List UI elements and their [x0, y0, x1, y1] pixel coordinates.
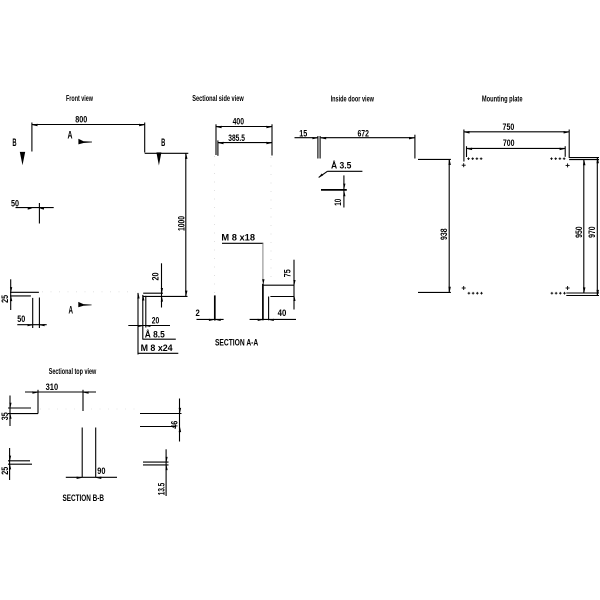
- svg-text:Å 3.5: Å 3.5: [331, 161, 351, 171]
- svg-text:310: 310: [46, 382, 59, 392]
- svg-text:1000: 1000: [177, 216, 187, 231]
- svg-text:50: 50: [11, 198, 19, 208]
- svg-text:Sectional top view: Sectional top view: [49, 367, 97, 376]
- svg-text:20: 20: [152, 315, 160, 325]
- svg-text:970: 970: [587, 226, 597, 238]
- svg-text:40: 40: [278, 308, 287, 318]
- svg-text:938: 938: [439, 228, 449, 240]
- svg-text:35: 35: [0, 412, 10, 420]
- svg-text:25: 25: [0, 295, 10, 303]
- svg-text:SECTION A-A: SECTION A-A: [215, 338, 259, 348]
- svg-text:950: 950: [574, 226, 584, 238]
- svg-text:Å 8.5: Å 8.5: [145, 330, 165, 340]
- svg-text:46: 46: [170, 421, 180, 429]
- svg-text:400: 400: [233, 116, 244, 126]
- svg-text:20: 20: [151, 273, 161, 281]
- svg-text:M 8 x18: M 8 x18: [221, 233, 255, 243]
- svg-text:Sectional side view: Sectional side view: [192, 94, 244, 103]
- svg-text:A: A: [68, 130, 73, 142]
- svg-text:2: 2: [195, 308, 199, 318]
- svg-text:SECTION B-B: SECTION B-B: [63, 493, 105, 503]
- svg-text:90: 90: [97, 466, 105, 476]
- svg-text:15: 15: [299, 129, 307, 139]
- svg-text:385.5: 385.5: [228, 133, 245, 143]
- svg-text:700: 700: [503, 138, 515, 148]
- svg-text:Front view: Front view: [66, 94, 94, 103]
- svg-text:75: 75: [283, 269, 293, 277]
- svg-text:A: A: [68, 304, 73, 316]
- svg-text:B: B: [12, 137, 16, 149]
- svg-text:672: 672: [357, 129, 369, 139]
- svg-text:Inside door view: Inside door view: [331, 95, 375, 104]
- svg-text:750: 750: [503, 122, 515, 132]
- svg-text:13.5: 13.5: [156, 483, 166, 496]
- svg-text:B: B: [161, 137, 165, 149]
- svg-text:Mounting plate: Mounting plate: [482, 95, 523, 104]
- svg-text:50: 50: [17, 314, 25, 324]
- svg-text:25: 25: [0, 467, 10, 475]
- svg-text:10: 10: [333, 199, 343, 206]
- svg-text:M 8 x24: M 8 x24: [141, 343, 174, 353]
- svg-text:800: 800: [75, 115, 87, 125]
